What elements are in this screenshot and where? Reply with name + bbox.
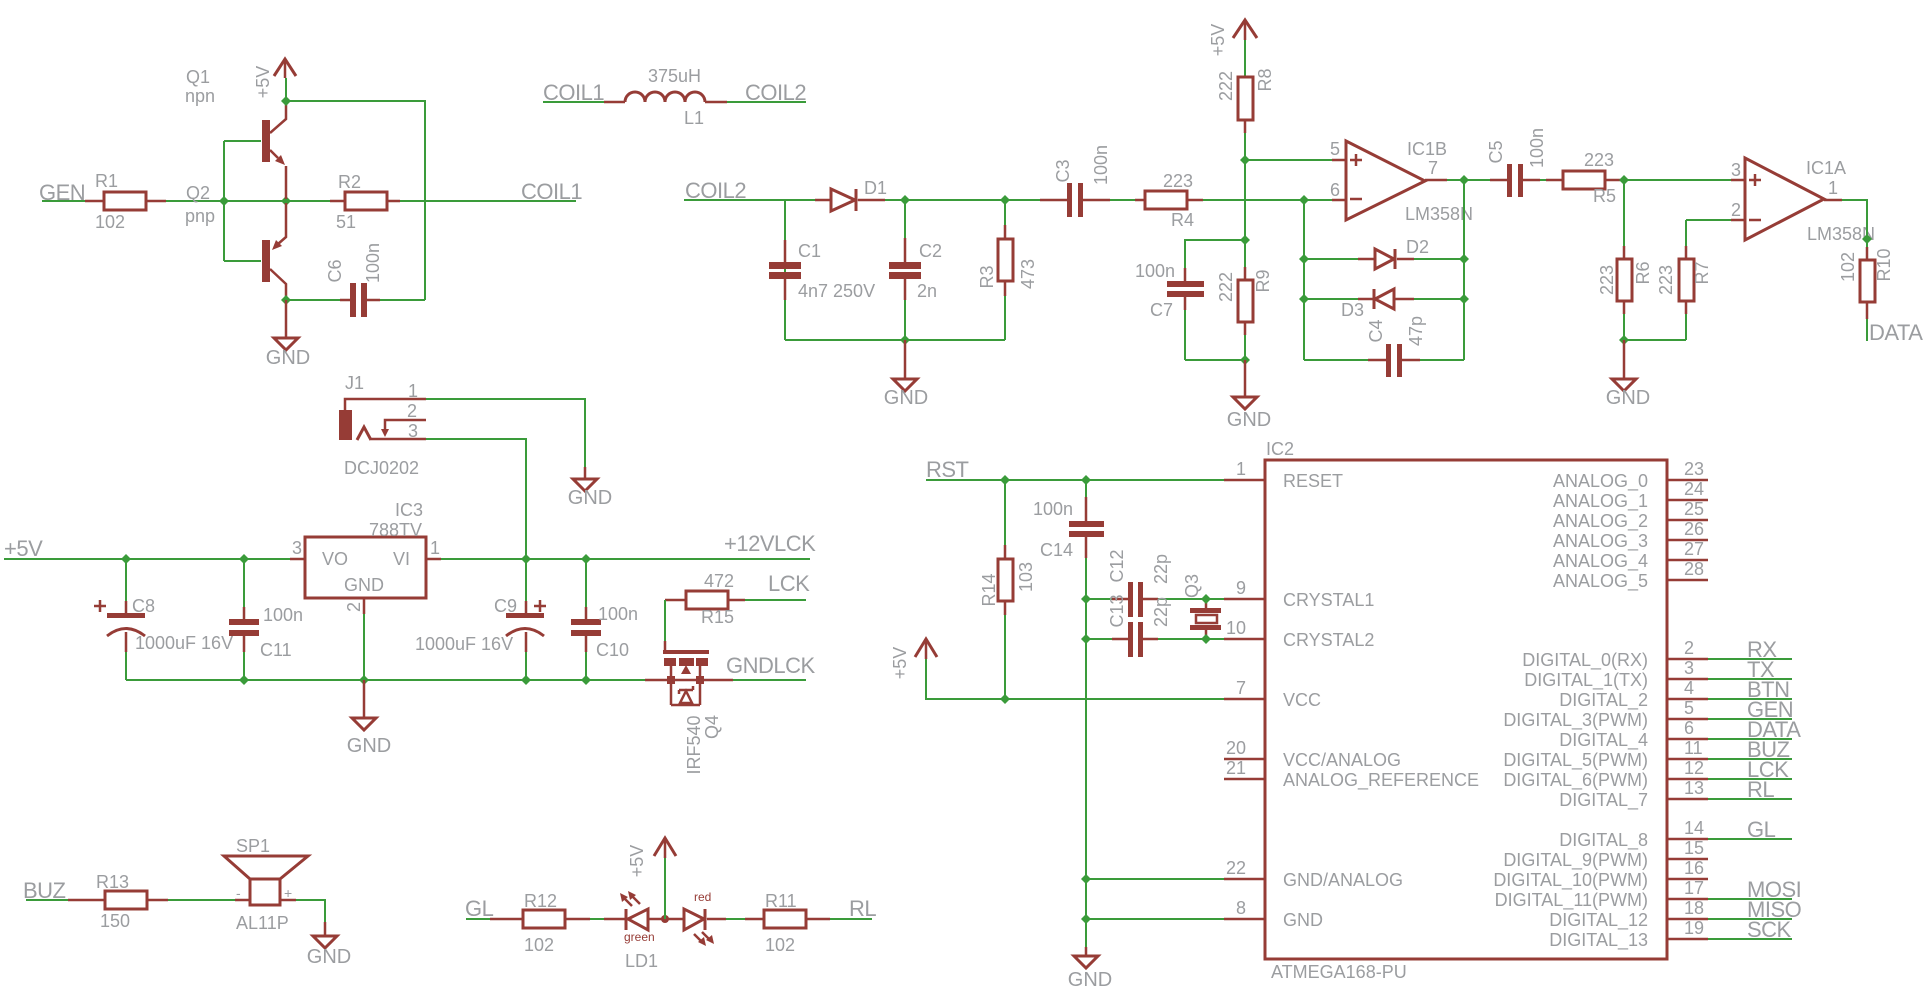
net label GEN [1747, 697, 1793, 722]
net label BUZ [1747, 737, 1790, 762]
ground [347, 680, 391, 757]
svg-text:GL: GL [465, 896, 494, 921]
svg-text:1000uF 16V: 1000uF 16V [135, 633, 233, 653]
wire [466, 918, 490, 920]
svg-text:GND: GND [568, 487, 612, 509]
svg-text:DIGITAL_12: DIGITAL_12 [1549, 910, 1648, 931]
svg-text:SP1: SP1 [236, 836, 270, 856]
svg-text:3: 3 [408, 421, 418, 441]
svg-text:DIGITAL_5(PWM): DIGITAL_5(PWM) [1503, 750, 1648, 771]
svg-text:DIGITAL_9(PWM): DIGITAL_9(PWM) [1503, 850, 1648, 871]
pin 12 DIGITAL_6(PWM) [1503, 758, 1792, 791]
resistor R9 [1216, 267, 1273, 335]
net label COIL2 [745, 80, 806, 105]
wire [727, 101, 806, 103]
junction [1299, 195, 1309, 205]
svg-text:102: 102 [524, 935, 554, 955]
junction [900, 335, 910, 345]
pin 3 DIGITAL_1(TX) [1524, 658, 1792, 691]
svg-text:223: 223 [1163, 171, 1193, 191]
svg-text:GNDLCK: GNDLCK [726, 653, 816, 678]
ground [1227, 360, 1271, 431]
svg-text:22p: 22p [1151, 554, 1171, 584]
svg-text:C1: C1 [798, 241, 821, 261]
junction [1000, 694, 1010, 704]
svg-text:VI: VI [393, 549, 410, 569]
svg-text:DIGITAL_11(PWM): DIGITAL_11(PWM) [1495, 890, 1648, 911]
svg-text:GND: GND [884, 387, 928, 409]
svg-text:2: 2 [344, 602, 364, 612]
svg-text:102: 102 [1838, 252, 1858, 282]
net label RST [926, 457, 969, 482]
power +5V [890, 639, 937, 679]
wire [1842, 200, 1867, 341]
wire [296, 900, 325, 922]
resistor R14 [979, 480, 1036, 699]
svg-text:5: 5 [1684, 698, 1694, 718]
svg-text:R1: R1 [95, 171, 118, 191]
svg-text:4n7 250V: 4n7 250V [798, 281, 875, 301]
svg-text:23: 23 [1684, 459, 1704, 479]
svg-text:IC1A: IC1A [1806, 158, 1846, 178]
svg-text:C14: C14 [1040, 540, 1073, 560]
net label COIL1 [543, 80, 604, 105]
svg-text:DIGITAL_4: DIGITAL_4 [1559, 730, 1648, 751]
svg-text:6: 6 [1684, 718, 1694, 738]
pin 25 ANALOG_2 [1553, 499, 1708, 532]
junction [521, 675, 531, 685]
svg-text:GND/ANALOG: GND/ANALOG [1283, 870, 1403, 890]
pin 9 CRYSTAL1 [1224, 578, 1374, 610]
inductor L1 375uH [604, 66, 727, 128]
wire COIL1 [400, 200, 576, 202]
junction [219, 196, 229, 206]
wire [1244, 40, 1246, 77]
svg-text:R15: R15 [701, 607, 734, 627]
svg-text:Q3: Q3 [1182, 574, 1202, 598]
svg-text:L1: L1 [684, 108, 704, 128]
wire [426, 439, 526, 559]
svg-text:22: 22 [1226, 858, 1246, 878]
svg-text:R9: R9 [1253, 269, 1273, 292]
svg-text:21: 21 [1226, 758, 1246, 778]
svg-text:RST: RST [926, 457, 969, 482]
svg-text:DIGITAL_8: DIGITAL_8 [1559, 830, 1648, 851]
transistor Q1 [185, 67, 286, 199]
wire [1203, 199, 1332, 201]
dc jack J1 DCJ0202 [339, 373, 426, 478]
svg-text:7: 7 [1428, 158, 1438, 178]
junction [521, 554, 531, 564]
wire [26, 899, 68, 901]
svg-text:222: 222 [1216, 71, 1236, 101]
svg-text:DIGITAL_7: DIGITAL_7 [1559, 790, 1648, 811]
svg-text:ANALOG_5: ANALOG_5 [1553, 571, 1648, 592]
net label RX [1747, 637, 1777, 662]
svg-text:51: 51 [336, 212, 356, 232]
led LD1 green [604, 891, 684, 944]
svg-text:223: 223 [1584, 150, 1614, 170]
capacitor C7 [1135, 240, 1245, 360]
svg-text:788TV: 788TV [369, 520, 422, 540]
capacitor C3 [1005, 145, 1135, 217]
svg-text:6: 6 [1330, 180, 1340, 200]
svg-text:2n: 2n [917, 281, 937, 301]
diode D1 [815, 178, 887, 211]
led LD1 red [684, 890, 726, 946]
junction [1459, 175, 1469, 185]
wire [1624, 180, 1731, 246]
svg-text:R11: R11 [765, 891, 797, 911]
svg-text:17: 17 [1684, 878, 1704, 898]
svg-text:100n: 100n [263, 605, 303, 625]
net label GL [465, 896, 494, 921]
resistor R15 [665, 571, 806, 627]
svg-text:C3: C3 [1053, 159, 1073, 182]
junction [239, 554, 249, 564]
svg-text:COIL2: COIL2 [745, 80, 806, 105]
svg-text:IC3: IC3 [395, 500, 423, 520]
power +5V [253, 59, 296, 98]
pin 10 CRYSTAL2 [1224, 618, 1374, 650]
svg-text:8: 8 [1236, 898, 1246, 918]
wire [926, 659, 1224, 699]
wire base node [166, 141, 330, 261]
svg-text:R5: R5 [1593, 186, 1616, 206]
junction [1619, 335, 1629, 345]
junction [1240, 355, 1250, 365]
svg-text:R10: R10 [1874, 248, 1894, 281]
capacitor C9 [415, 559, 546, 680]
net label +12VLCK [724, 531, 816, 556]
svg-text:100n: 100n [363, 243, 383, 283]
wire [1304, 200, 1368, 360]
svg-text:222: 222 [1216, 272, 1236, 302]
svg-text:12: 12 [1684, 758, 1704, 778]
svg-text:IC1B: IC1B [1407, 139, 1447, 159]
pin 18 DIGITAL_12 [1549, 898, 1792, 931]
wire [363, 614, 365, 680]
ground [307, 922, 351, 968]
wire [1244, 335, 1246, 360]
wire [1686, 219, 1731, 221]
pin 8 GND [1224, 898, 1323, 930]
svg-text:1: 1 [1236, 459, 1246, 479]
svg-text:100n: 100n [1091, 145, 1111, 185]
svg-text:LD1: LD1 [625, 951, 658, 971]
resistor R7 [1656, 220, 1712, 340]
svg-text:R14: R14 [979, 573, 999, 606]
ground [1068, 947, 1112, 991]
svg-text:D2: D2 [1406, 237, 1429, 257]
svg-text:C11: C11 [260, 640, 292, 660]
svg-text:RL: RL [849, 896, 876, 921]
wire gnd rail [126, 679, 645, 681]
net label LCK [1747, 757, 1789, 782]
svg-text:DIGITAL_3(PWM): DIGITAL_3(PWM) [1503, 710, 1648, 731]
svg-text:pnp: pnp [185, 206, 215, 226]
wire [726, 918, 764, 920]
svg-text:C10: C10 [596, 640, 629, 660]
svg-text:Q1: Q1 [186, 67, 210, 87]
svg-text:ANALOG_2: ANALOG_2 [1553, 511, 1648, 532]
svg-text:C7: C7 [1150, 300, 1173, 320]
svg-text:16: 16 [1684, 858, 1704, 878]
junction [581, 675, 591, 685]
net label DATA [1869, 320, 1923, 345]
svg-text:3: 3 [292, 538, 302, 558]
capacitor C2 [889, 200, 942, 340]
svg-text:100n: 100n [598, 604, 638, 624]
svg-text:1: 1 [430, 538, 440, 558]
junction [281, 96, 291, 106]
wire GEN [42, 200, 85, 202]
svg-text:R12: R12 [524, 891, 557, 911]
ground [1606, 340, 1650, 409]
svg-text:+5V: +5V [253, 66, 273, 99]
svg-text:9: 9 [1236, 578, 1246, 598]
svg-text:5: 5 [1330, 139, 1340, 159]
svg-text:IC2: IC2 [1266, 439, 1294, 459]
junction [1240, 235, 1250, 245]
svg-text:red: red [694, 890, 711, 904]
pin 20 VCC/ANALOG [1224, 738, 1401, 770]
svg-text:+5V: +5V [890, 647, 910, 680]
capacitor C8 [94, 559, 233, 680]
junction [1619, 175, 1629, 185]
svg-text:J1: J1 [345, 373, 364, 393]
svg-text:3: 3 [1731, 160, 1741, 180]
svg-text:GND: GND [1227, 409, 1271, 431]
svg-text:102: 102 [765, 935, 795, 955]
svg-text:DATA: DATA [1869, 320, 1923, 345]
svg-text:375uH: 375uH [648, 66, 701, 86]
voltage regulator IC3 788TV [290, 500, 441, 614]
svg-text:C13: C13 [1107, 594, 1127, 627]
svg-text:Q4: Q4 [702, 715, 722, 739]
svg-text:ATMEGA168-PU: ATMEGA168-PU [1271, 962, 1407, 982]
svg-text:102: 102 [95, 212, 125, 232]
svg-text:2: 2 [1731, 200, 1741, 220]
wire [590, 918, 604, 920]
svg-text:R13: R13 [96, 872, 129, 892]
svg-text:npn: npn [185, 86, 215, 106]
capacitor C11 [229, 559, 303, 680]
svg-text:472: 472 [704, 571, 734, 591]
svg-text:20: 20 [1226, 738, 1246, 758]
resistor R6 [1597, 246, 1653, 314]
svg-text:DIGITAL_2: DIGITAL_2 [1559, 690, 1648, 711]
net label GEN [39, 180, 85, 205]
svg-text:C4: C4 [1366, 319, 1386, 342]
pin 17 DIGITAL_11(PWM) [1495, 878, 1792, 911]
speaker SP1 AL11P [224, 836, 308, 933]
svg-text:100n: 100n [1527, 128, 1547, 168]
capacitor C6 [286, 243, 425, 317]
svg-text:GND: GND [266, 347, 310, 369]
svg-text:D3: D3 [1341, 300, 1364, 320]
net label GNDLCK [726, 653, 816, 678]
svg-text:VCC/ANALOG: VCC/ANALOG [1283, 750, 1401, 770]
power +5V [1208, 20, 1257, 56]
pin 6 DIGITAL_4 [1559, 718, 1792, 751]
junction [1240, 155, 1250, 165]
junction [661, 915, 669, 923]
svg-text:green: green [624, 930, 655, 944]
wire +5V rail [4, 558, 810, 560]
svg-text:GND: GND [344, 575, 384, 595]
pin 15 DIGITAL_9(PWM) [1503, 838, 1708, 871]
svg-text:28: 28 [1684, 559, 1704, 579]
svg-text:47p: 47p [1406, 316, 1426, 346]
pin 24 ANALOG_1 [1553, 479, 1708, 512]
svg-text:+5V: +5V [4, 536, 43, 561]
svg-text:ANALOG_0: ANALOG_0 [1553, 471, 1648, 492]
ground [266, 300, 310, 369]
resistor R12 [490, 891, 590, 955]
svg-text:18: 18 [1684, 898, 1704, 918]
svg-text:RESET: RESET [1283, 471, 1343, 491]
svg-text:LCK: LCK [768, 571, 810, 596]
net label +5V [4, 536, 43, 561]
svg-text:D1: D1 [864, 178, 887, 198]
wire [926, 479, 1224, 481]
svg-text:DIGITAL_6(PWM): DIGITAL_6(PWM) [1503, 770, 1648, 791]
svg-text:SCK: SCK [1747, 917, 1792, 942]
svg-text:DIGITAL_0(RX): DIGITAL_0(RX) [1522, 650, 1648, 671]
junction [239, 675, 249, 685]
svg-text:R7: R7 [1692, 261, 1712, 284]
svg-text:26: 26 [1684, 519, 1704, 539]
pin 5 DIGITAL_3(PWM) [1503, 698, 1792, 731]
capacitor C4 [1366, 316, 1426, 377]
svg-text:25: 25 [1684, 499, 1704, 519]
svg-text:100n: 100n [1135, 261, 1175, 281]
wire [1245, 133, 1332, 267]
svg-text:473: 473 [1018, 259, 1038, 289]
net label BUZ [23, 878, 66, 903]
pin 23 ANALOG_0 [1553, 459, 1708, 492]
svg-text:22p: 22p [1151, 597, 1171, 627]
net label COIL2 [685, 178, 746, 203]
capacitor C13 [1086, 594, 1206, 657]
junction [1862, 234, 1872, 244]
resistor R2 [330, 172, 400, 232]
wire [1086, 879, 1224, 919]
svg-text:C5: C5 [1486, 140, 1506, 163]
svg-text:C6: C6 [325, 259, 345, 282]
diode D2 [1304, 237, 1464, 269]
net label MISO [1747, 897, 1802, 922]
wire [1624, 314, 1686, 340]
resistor R13 [68, 872, 168, 931]
svg-text:+5V: +5V [627, 845, 647, 878]
pin 4 DIGITAL_2 [1559, 678, 1792, 711]
svg-text:R8: R8 [1255, 68, 1275, 91]
pin 1 RESET [1224, 459, 1343, 491]
resistor R8 [1216, 68, 1275, 133]
svg-text:+12VLCK: +12VLCK [724, 531, 816, 556]
svg-text:C2: C2 [919, 241, 942, 261]
svg-text:+5V: +5V [1208, 24, 1228, 57]
svg-text:223: 223 [1656, 265, 1676, 295]
pin 13 DIGITAL_7 [1559, 778, 1792, 811]
pin 21 ANALOG_REFERENCE [1224, 758, 1479, 791]
junction [900, 195, 910, 205]
junction [1081, 634, 1091, 644]
diode D3 [1304, 289, 1464, 320]
resistor R3 [905, 200, 1038, 340]
junction [359, 675, 369, 685]
svg-text:R3: R3 [977, 265, 997, 288]
pin 26 ANALOG_3 [1553, 519, 1708, 552]
pin 14 DIGITAL_8 [1559, 818, 1792, 851]
wire [543, 101, 604, 103]
svg-text:C8: C8 [132, 596, 155, 616]
svg-text:14: 14 [1684, 818, 1704, 838]
svg-text:GND: GND [1068, 969, 1112, 991]
svg-text:CRYSTAL1: CRYSTAL1 [1283, 590, 1374, 610]
svg-text:ANALOG_REFERENCE: ANALOG_REFERENCE [1283, 770, 1479, 791]
svg-text:150: 150 [100, 911, 130, 931]
svg-text:1: 1 [408, 381, 418, 401]
wire [426, 399, 585, 467]
net label SCK [1747, 917, 1792, 942]
svg-text:4: 4 [1684, 678, 1694, 698]
junction [281, 295, 291, 305]
capacitor C12 [1086, 549, 1206, 617]
wire [830, 918, 872, 920]
wire +5V rail [286, 78, 425, 300]
pin 11 DIGITAL_5(PWM) [1503, 738, 1792, 771]
svg-text:CRYSTAL2: CRYSTAL2 [1283, 630, 1374, 650]
svg-text:7: 7 [1236, 678, 1246, 698]
svg-text:C12: C12 [1107, 549, 1127, 582]
junction [1081, 594, 1091, 604]
pin 16 DIGITAL_10(PWM) [1493, 858, 1708, 891]
svg-text:19: 19 [1684, 918, 1704, 938]
net label COIL1 [521, 179, 582, 204]
svg-text:Q2: Q2 [186, 183, 210, 203]
junction [1201, 634, 1211, 644]
svg-text:2: 2 [407, 401, 417, 421]
svg-text:RL: RL [1747, 777, 1774, 802]
net label RL [849, 896, 876, 921]
svg-text:GND: GND [307, 946, 351, 968]
svg-text:11: 11 [1684, 738, 1703, 758]
svg-text:13: 13 [1684, 778, 1704, 798]
svg-text:IRF540: IRF540 [684, 715, 704, 774]
junction [1081, 874, 1091, 884]
junction [1299, 294, 1309, 304]
text LD1 [625, 951, 658, 971]
junction [281, 196, 291, 206]
svg-text:+: + [284, 885, 292, 901]
net label RL [1747, 777, 1774, 802]
svg-text:GND: GND [1606, 387, 1650, 409]
resistor R1 [85, 171, 166, 232]
svg-text:27: 27 [1684, 539, 1704, 559]
svg-text:C9: C9 [494, 596, 517, 616]
wire [168, 899, 235, 901]
svg-text:1000uF 16V: 1000uF 16V [415, 634, 513, 654]
junction [121, 554, 131, 564]
svg-text:DIGITAL_13: DIGITAL_13 [1549, 930, 1648, 951]
capacitor C10 [571, 559, 638, 680]
junction [1000, 195, 1010, 205]
svg-text:1: 1 [1828, 178, 1838, 198]
pin 22 GND/ANALOG [1224, 858, 1403, 890]
